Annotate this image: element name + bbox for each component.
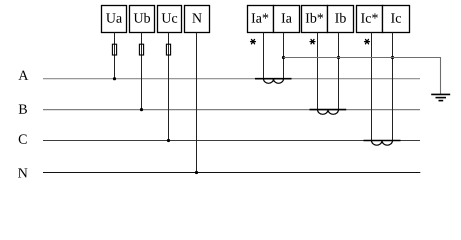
CT TA primary (thick segment on line A) — [255, 78, 292, 80]
fuse FU3 — [166, 44, 170, 55]
fuse FU1 — [112, 44, 116, 55]
terminal Ic — [383, 6, 410, 33]
CT TA secondary winding (two humps) — [264, 79, 284, 84]
polarity mark * for Ib* — [310, 39, 315, 43]
wire Uc to line C — [168, 33, 170, 141]
ground symbol — [431, 94, 450, 100]
junction dot Ib on ground bus — [337, 56, 340, 59]
polarity mark * for Ic* — [365, 39, 370, 43]
wire Ia* to line A — [263, 33, 265, 79]
junction dot Uc on line C — [167, 139, 170, 142]
wire Ub to line B — [141, 33, 143, 110]
terminal Ia* — [248, 6, 274, 33]
label C — [19, 134, 27, 143]
terminal Ib — [328, 6, 354, 33]
wire N (voltage) to line N — [196, 33, 198, 173]
label N — [18, 168, 27, 177]
junction dot Ic on ground bus — [391, 56, 394, 59]
junction dot N on line N — [195, 171, 198, 174]
junction dot Ub on line B — [140, 108, 143, 111]
terminal Uc — [158, 6, 182, 33]
wire Ua to line A — [114, 33, 116, 79]
terminal Ia — [274, 6, 300, 33]
neutral line N — [43, 172, 420, 174]
terminal Ub — [130, 6, 155, 33]
fuse FU2 — [139, 44, 143, 55]
CT TC secondary winding (two humps) — [372, 141, 393, 146]
CT TB primary (thick segment on line B) — [310, 109, 347, 111]
phase line B — [43, 109, 420, 111]
CT TB secondary winding (two humps) — [318, 110, 339, 115]
ground bus wire — [284, 58, 441, 95]
wire Ib* to line B — [317, 33, 319, 110]
wire Ib to line B — [338, 33, 340, 110]
phase line C — [43, 140, 420, 142]
junction dot Ua on line A — [113, 77, 116, 80]
wire Ic* to line C — [371, 33, 373, 141]
terminal Ic* — [357, 6, 383, 33]
polarity mark * for Ia* — [251, 39, 256, 43]
label A — [18, 71, 28, 80]
wire Ia to line A — [283, 33, 285, 79]
junction dot Ia on ground bus — [282, 56, 285, 59]
terminal N (voltage) — [185, 6, 210, 33]
label B — [19, 105, 27, 114]
wire Ic to line C — [392, 33, 394, 141]
phase line A — [43, 78, 420, 80]
CT TC primary (thick segment on line C) — [364, 140, 401, 142]
terminal Ua — [102, 6, 127, 33]
terminal Ib* — [302, 6, 328, 33]
